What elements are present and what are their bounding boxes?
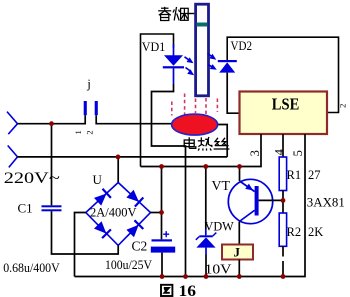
svg-text:LSE: LSE	[272, 95, 300, 114]
node junction C1/line1	[49, 121, 54, 126]
node junction J/bus	[237, 274, 242, 279]
svg-text:J: J	[234, 245, 241, 260]
label 丝 (glyph)	[214, 138, 230, 149]
svg-text:j: j	[86, 76, 91, 91]
capacitor C2	[151, 239, 175, 252]
heating wire ellipse 电热丝	[172, 114, 218, 135]
wire: VD1 cathode path down-left	[152, 84, 186, 277]
svg-text:10V: 10V	[205, 263, 232, 278]
svg-text:C2: C2	[132, 239, 148, 254]
svg-text:VT: VT	[212, 178, 231, 193]
node junction bridge right / C2 rail	[159, 210, 164, 215]
VD1 enclosure box	[141, 34, 174, 167]
wire: C2 lower lead	[161, 253, 163, 277]
wire: bridge left corner to down rail	[75, 213, 86, 277]
cigarette filter band	[197, 23, 208, 27]
wire: VD2 anode lead to LSE pin	[227, 73, 239, 114]
svg-text:U: U	[93, 172, 103, 187]
node junction VDW/bus	[204, 274, 209, 279]
wire: VT collector to relay J	[238, 222, 240, 245]
wire: VT base to divider	[259, 199, 283, 201]
VT emitter arrow	[245, 184, 255, 194]
svg-text:16: 16	[179, 283, 197, 297]
caption 图 (glyph)	[161, 285, 172, 296]
input terminal chevron top (220V line 1)	[7, 112, 18, 135]
node junction bridge top / line2	[116, 155, 121, 160]
node junction R2/bus	[281, 274, 286, 279]
input terminal chevron bottom (220V line 2)	[8, 146, 18, 168]
node junction VD1path/bus	[183, 274, 188, 279]
wire: R2 lower lead with gap	[282, 246, 284, 256]
LED VD1	[163, 44, 184, 84]
transistor VT	[239, 167, 241, 182]
wire: line1 left segment to relay contact j	[18, 123, 86, 125]
wire: ground/bottom bus	[75, 134, 306, 277]
label 热 (glyph)	[198, 137, 212, 151]
svg-text:3: 3	[248, 150, 262, 156]
resistor R1	[279, 157, 286, 191]
wire: LSE pin4 lead	[282, 134, 284, 157]
wire: bridge top lead	[117, 157, 119, 184]
LSE block	[240, 92, 328, 135]
svg-text:100u/25V: 100u/25V	[105, 257, 153, 272]
zener VDW	[205, 167, 207, 230]
wire: R1 lower lead	[282, 191, 284, 201]
wire: line1 right segment from contact j to heating wire	[96, 123, 174, 125]
photodiode VD2	[218, 60, 237, 73]
svg-text:2A/400V: 2A/400V	[90, 205, 137, 220]
svg-text:27: 27	[308, 168, 321, 182]
svg-text:C1: C1	[18, 201, 33, 216]
svg-text:1: 1	[73, 130, 83, 134]
label 香烟 pointer	[187, 13, 194, 15]
svg-text:4: 4	[272, 148, 286, 155]
relay contact j plates	[84, 101, 98, 115]
svg-text:VD2: VD2	[231, 38, 253, 53]
wire: C1 lower lead down and right	[52, 211, 119, 254]
node junction C2/bus	[160, 274, 165, 279]
svg-text:R1: R1	[287, 168, 302, 182]
wire: C1 upper lead	[51, 124, 53, 206]
label 香 (glyph)	[158, 7, 171, 21]
wire: J lower lead	[238, 260, 240, 277]
svg-text:VDW: VDW	[205, 220, 234, 234]
node junction R1/R2/base	[281, 198, 286, 203]
wire: DC rail y166.5	[141, 134, 262, 167]
heat dashes	[172, 94, 218, 116]
svg-text:R2: R2	[287, 225, 302, 239]
wire: VDW anode lead	[205, 255, 207, 277]
diode U top-left	[93, 189, 111, 207]
diode U bottom-left	[93, 221, 111, 239]
svg-text:2: 2	[84, 130, 94, 134]
wire: line2 riser to heater right tip	[218, 125, 228, 157]
diode U bottom-right	[126, 220, 144, 238]
svg-text:0.68u/400V: 0.68u/400V	[3, 260, 60, 275]
wire: bridge bottom corner stub	[117, 245, 119, 254]
svg-text:5: 5	[291, 150, 305, 156]
svg-text:2K: 2K	[308, 225, 323, 239]
cigarette body	[196, 4, 209, 96]
diode U top-right	[126, 189, 144, 207]
label 烟 (glyph)	[173, 7, 188, 21]
wire: C2 upper lead	[161, 167, 163, 240]
VD2 enclosure box / pin2 wire	[227, 37, 338, 112]
node junction VDW/rail	[203, 164, 208, 169]
wire: contact j stubs	[85, 115, 96, 124]
svg-text:3AX81: 3AX81	[307, 195, 345, 210]
relay coil J box	[222, 245, 253, 260]
capacitor C1 plates	[42, 205, 62, 211]
label 电 (glyph)	[184, 137, 196, 148]
C2 plus sign	[163, 231, 169, 237]
light arrows cigarette to VD2	[208, 54, 219, 73]
wire: line2 from chevron to x227	[18, 156, 228, 158]
svg-text:VD1: VD1	[142, 39, 166, 54]
node junction C2/rail	[159, 164, 164, 169]
wire: bridge right corner to C2 rail	[151, 212, 162, 214]
node junction VT/rail	[237, 164, 242, 169]
light arrows VD1 to cigarette	[185, 57, 196, 78]
bridge rectifier U diamond	[86, 183, 151, 246]
resistor R2	[282, 200, 284, 213]
svg-text:2: 2	[338, 104, 348, 108]
